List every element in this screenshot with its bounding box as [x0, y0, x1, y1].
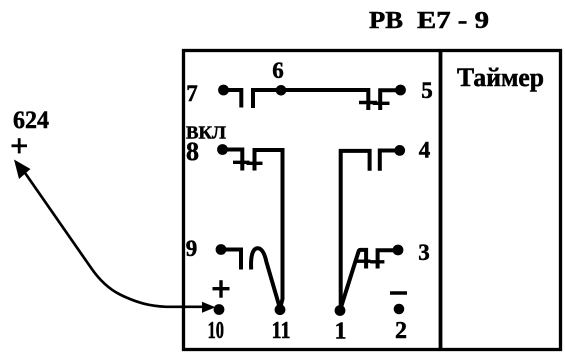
- pin 3 dot: [393, 245, 404, 256]
- pin 10 dot: [214, 304, 225, 315]
- pin 2 dot: [394, 304, 405, 315]
- pin 1 dot: [335, 305, 346, 316]
- wire pin9 hook: [221, 250, 241, 270]
- pin label 10: [208, 318, 225, 344]
- relay box outline: [184, 51, 561, 350]
- label вкл: [186, 123, 226, 143]
- node 6 dot: [276, 85, 287, 96]
- pin label 2: [395, 318, 407, 344]
- crossbar contact 3 left: [355, 260, 371, 263]
- pin label 9: [186, 236, 198, 261]
- svg-text:4: 4: [419, 138, 431, 163]
- crossbar contact 3 right: [370, 260, 384, 263]
- curved wire contact 9 to pin 11: [251, 248, 280, 308]
- wire pin1 to contact 4: [341, 151, 370, 309]
- svg-text:624: 624: [13, 107, 49, 134]
- crossbar contact 8 right: [247, 162, 263, 165]
- wire hook to pin 4: [380, 151, 400, 171]
- svg-text:Е7 - 9: Е7 - 9: [417, 8, 489, 34]
- svg-text:7: 7: [186, 81, 198, 106]
- arrow head at pin 10: [202, 302, 216, 313]
- divider wall: [439, 49, 443, 351]
- svg-text:8: 8: [186, 137, 199, 166]
- minus sign at pin 2: [390, 291, 407, 295]
- svg-text:3: 3: [418, 240, 430, 265]
- pin 9 dot: [216, 244, 227, 255]
- svg-text:РВ: РВ: [369, 8, 403, 34]
- pin label 3: [418, 240, 430, 265]
- pin label 7: [186, 81, 198, 106]
- svg-text:1: 1: [335, 319, 347, 345]
- svg-text:11: 11: [272, 318, 291, 344]
- pin 7 dot: [218, 85, 229, 96]
- svg-text:Таймер: Таймер: [457, 63, 544, 92]
- wire pin8 hook: [222, 150, 242, 171]
- pin label 8: [186, 137, 199, 166]
- pin label 11: [272, 318, 291, 344]
- pin 4 dot: [394, 145, 405, 156]
- pin label 5: [421, 78, 433, 103]
- crossbar contact 8 left: [233, 161, 250, 164]
- wire pin7 hook: [224, 90, 242, 108]
- diagonal wire pin1 to contact 3: [340, 250, 366, 310]
- pin label 4: [419, 138, 431, 163]
- plus sign at pin 10: [213, 280, 230, 298]
- pin 8 dot: [217, 144, 228, 155]
- pin label 1: [335, 319, 347, 345]
- svg-text:10: 10: [208, 318, 225, 344]
- wire hook to pin 5: [380, 90, 400, 110]
- label Таймер: [457, 63, 544, 92]
- arrow head up at 624: [14, 160, 31, 180]
- pin 5 dot: [395, 85, 406, 96]
- curved arrow wire to pin 10: [23, 170, 207, 307]
- pin label 6: [272, 58, 284, 83]
- svg-text:6: 6: [272, 58, 284, 83]
- title РВ Е7-9: [369, 8, 489, 34]
- crossbar contact 5 left: [359, 101, 377, 104]
- svg-text:2: 2: [395, 318, 407, 344]
- crossbar contact 5 right: [373, 102, 390, 105]
- svg-text:9: 9: [186, 236, 198, 261]
- wire hook to node 6: [253, 90, 281, 108]
- wire node6 to contact 5: [281, 90, 368, 110]
- wire contact 8 to pin 11: [255, 150, 283, 309]
- plus sign under 624: [12, 138, 28, 153]
- wire hook to pin 3: [378, 250, 398, 268]
- svg-text:5: 5: [421, 78, 433, 103]
- label 624: [13, 107, 49, 134]
- pin 11 dot: [275, 304, 286, 315]
